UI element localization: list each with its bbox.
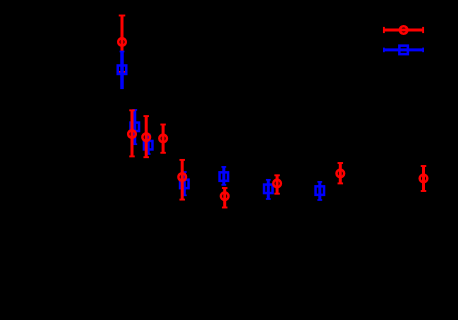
error bar B4	[182, 172, 187, 195]
error bar B3	[146, 135, 151, 155]
error bar R8	[338, 163, 344, 183]
data point B7 (blue square marker)	[316, 186, 325, 195]
error bar R4	[160, 125, 166, 153]
legend marker: red circle	[400, 26, 408, 34]
data point R5 (red circle marker)	[178, 173, 186, 181]
data point B4 (blue square marker)	[180, 180, 189, 189]
data point R7 (red circle marker)	[273, 180, 281, 188]
error bar B7	[317, 182, 322, 200]
error bar R9	[421, 166, 427, 191]
error bar R3	[143, 116, 149, 157]
data point R8 (red circle marker)	[337, 170, 345, 178]
data point B6 (blue square marker)	[264, 185, 273, 194]
data point R1 (red circle marker)	[118, 38, 126, 46]
error bar R1	[119, 16, 126, 72]
data point R2 (red circle marker)	[128, 130, 136, 138]
error bar B5	[221, 167, 226, 185]
data point R9 (red circle marker)	[420, 175, 428, 183]
error bar B2	[132, 110, 137, 144]
error bar R6	[222, 188, 228, 208]
data point B2 (blue square marker)	[131, 123, 140, 132]
legend marker: blue square	[399, 46, 408, 55]
legend entry: red series sample line with caps	[383, 27, 424, 33]
error bar R2	[129, 110, 135, 156]
data point R4 (red circle marker)	[159, 135, 167, 143]
error bar B1	[120, 52, 125, 90]
legend entry: blue series sample line with caps	[383, 48, 424, 53]
data point R6 (red circle marker)	[221, 192, 229, 200]
error bar B6	[266, 180, 271, 199]
error bar R5	[179, 160, 185, 200]
data point B5 (blue square marker)	[220, 172, 229, 181]
error bar R7	[274, 175, 280, 193]
data point R3 (red circle marker)	[142, 133, 150, 141]
data point B1 (blue square marker)	[118, 65, 127, 74]
data point B3 (blue square marker)	[144, 141, 153, 150]
